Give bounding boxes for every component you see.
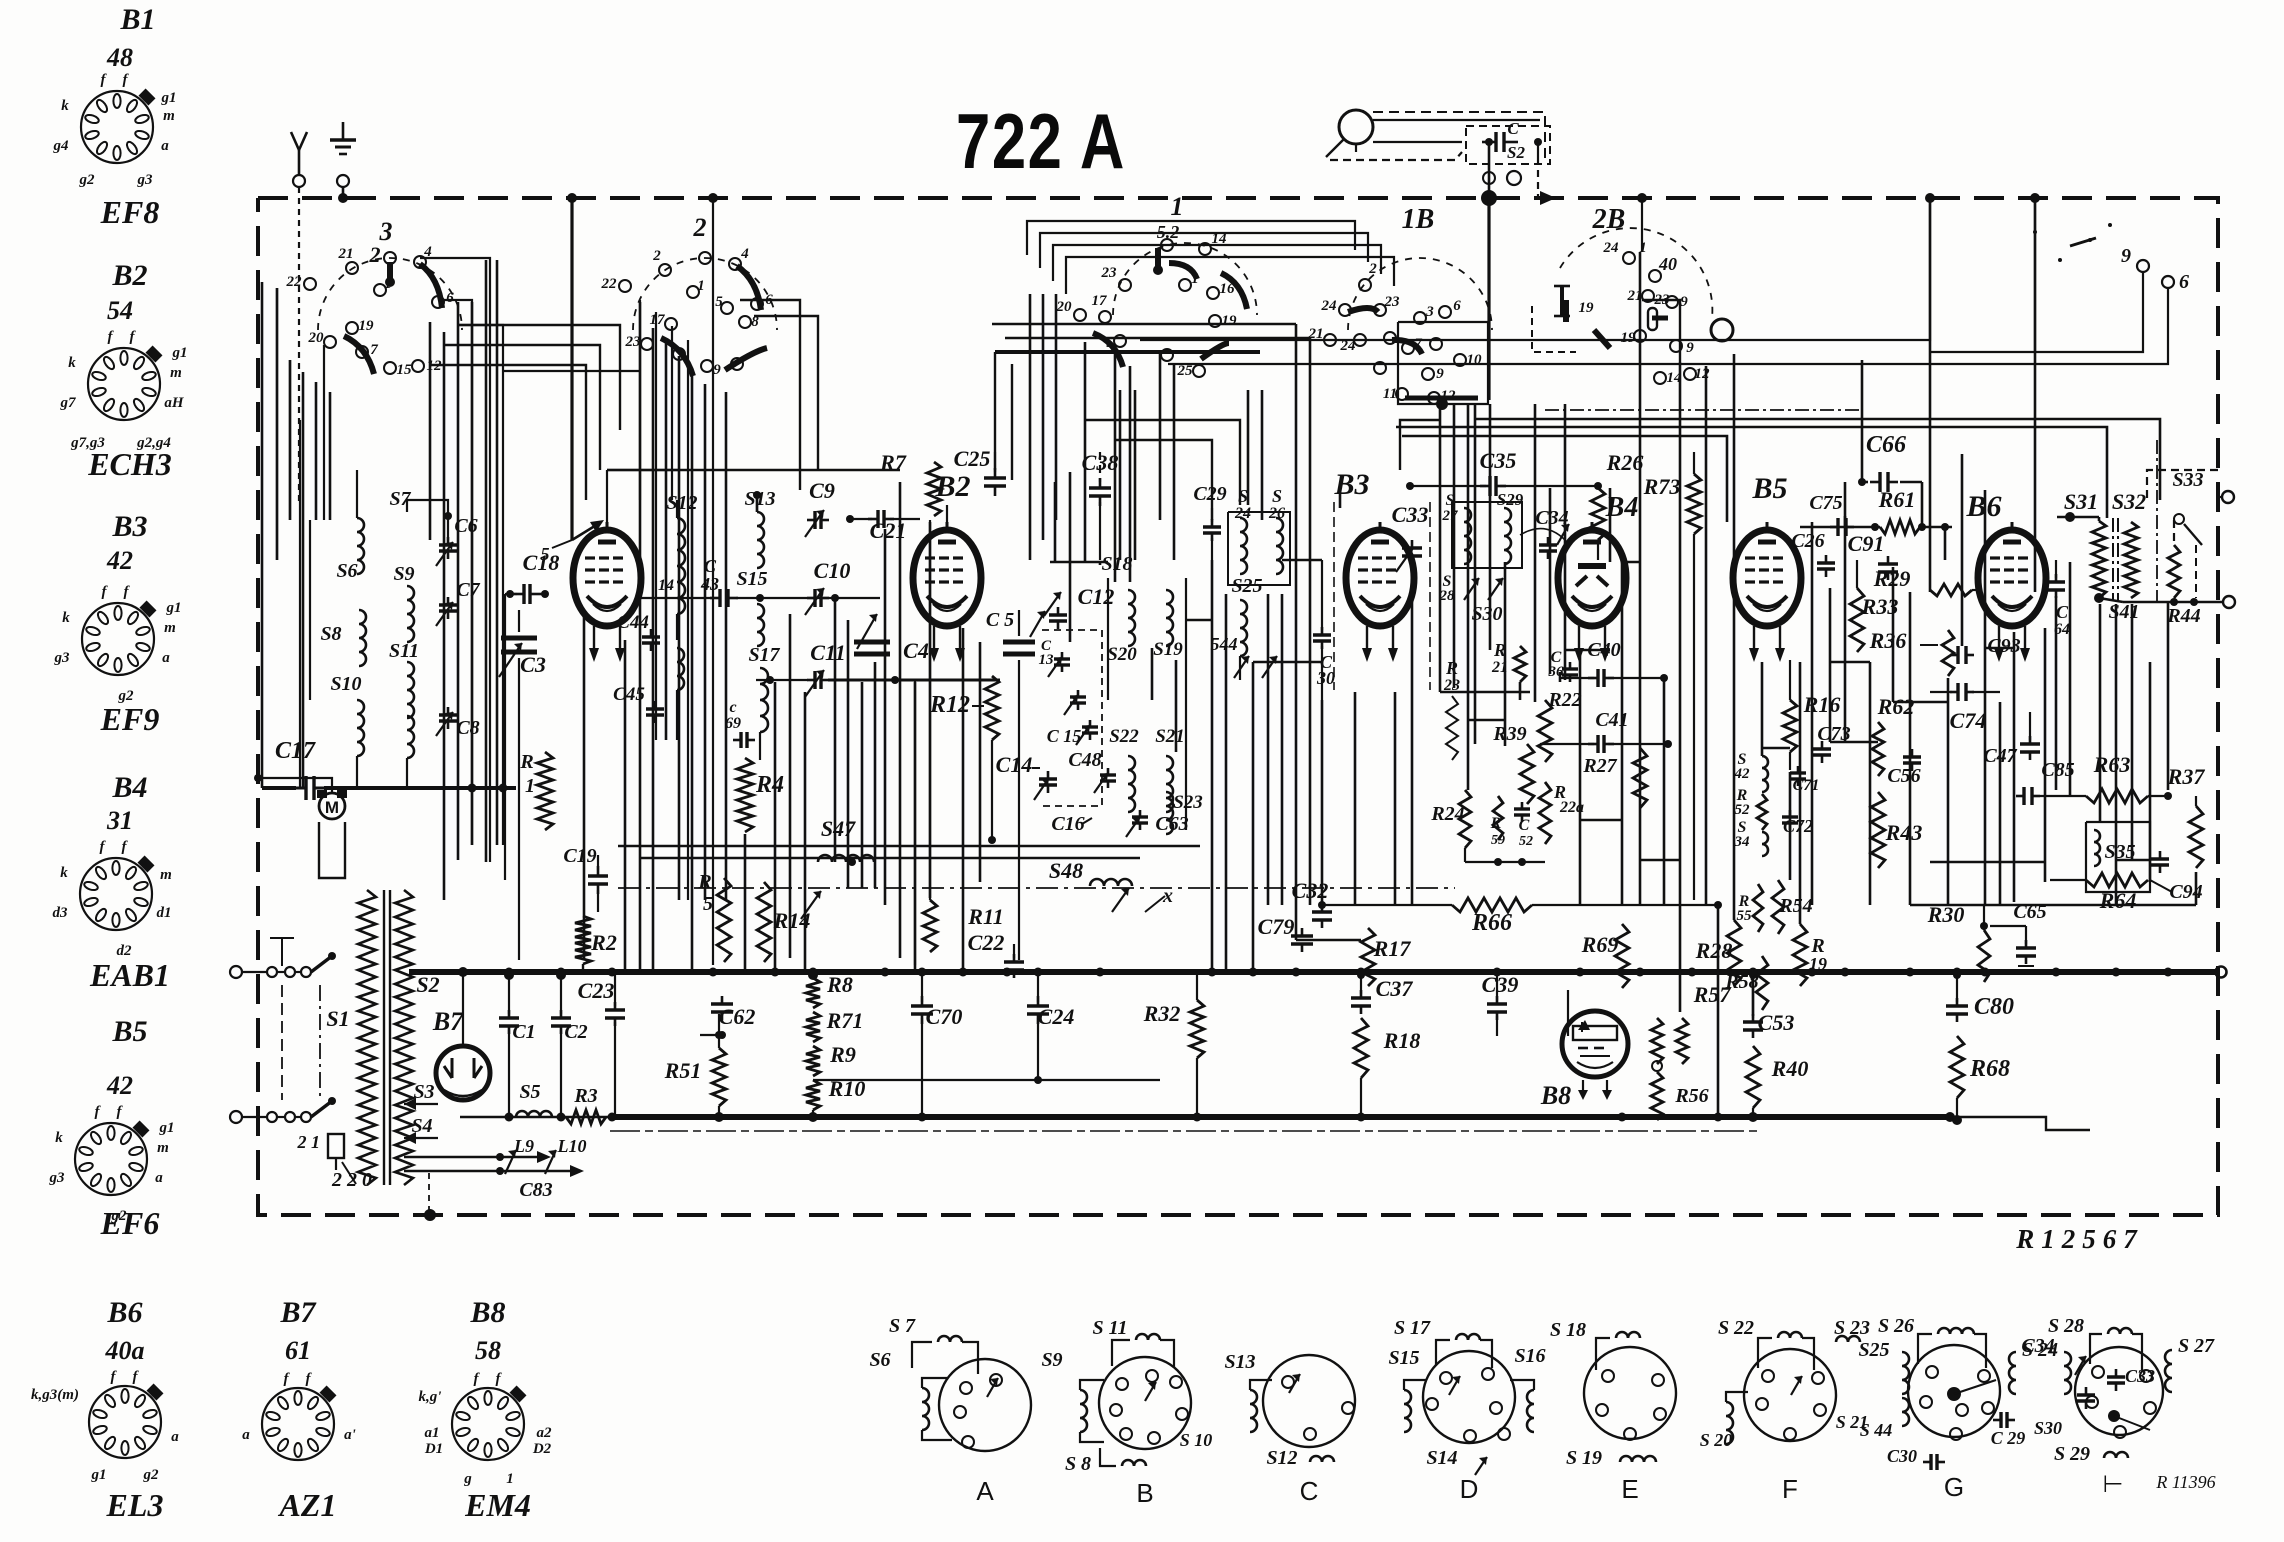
resistor R3: [566, 1085, 606, 1124]
svg-text:R61: R61: [1878, 487, 1916, 512]
varcap C11: [805, 640, 846, 697]
svg-text:S 18: S 18: [1550, 1319, 1586, 1341]
svg-text:g1: g1: [166, 600, 182, 616]
tube socket B2 (ECH3): [88, 346, 162, 420]
wire C62 join: [700, 1031, 723, 1039]
label S28 H: [2048, 1315, 2084, 1337]
node on top border: [338, 193, 348, 203]
resistor R18: [1354, 1018, 1420, 1121]
svg-text:2: 2: [369, 242, 381, 267]
svg-text:C29: C29: [1193, 483, 1226, 505]
motor M: [317, 790, 347, 819]
svg-text:AZ1: AZ1: [278, 1487, 337, 1523]
socket detail H circle: [2075, 1347, 2163, 1438]
transformer core: [384, 890, 390, 1185]
coil S17: [748, 644, 780, 760]
wire block drop a: [276, 288, 278, 560]
mech dash-dot line: [618, 887, 1455, 889]
svg-text:c: c: [729, 699, 736, 716]
band switch wafer 1B: [1308, 204, 1493, 404]
node on top border: [2030, 193, 2040, 203]
resistor R62: [1872, 694, 1914, 776]
svg-text:C16: C16: [1051, 813, 1084, 835]
svg-text:25: 25: [1177, 363, 1194, 379]
svg-text:R36: R36: [1869, 628, 1907, 653]
resistor R33: [1850, 560, 1898, 652]
svg-text:EF9: EF9: [100, 701, 160, 737]
fuse Z1: [297, 1132, 345, 1170]
label S16 D: [1514, 1345, 1545, 1367]
motor frame: [319, 822, 345, 878]
label S11 B: [1092, 1317, 1127, 1339]
coil S8: [320, 610, 366, 666]
tube socket B7 (AZ1): [262, 1386, 336, 1460]
coil S48: [1049, 858, 1132, 912]
svg-text:C22: C22: [968, 930, 1005, 955]
socket B2 pin labels: [60, 329, 188, 451]
band switch wafer 1: [1056, 192, 1258, 379]
svg-text:C62: C62: [719, 1004, 756, 1029]
svg-text:R8: R8: [826, 972, 853, 997]
socket F coil S22: [1758, 1332, 1814, 1370]
svg-text:C91: C91: [1848, 531, 1885, 556]
svg-text:C: C: [1519, 817, 1530, 834]
resistor R36: [1869, 628, 1954, 676]
svg-text:24: 24: [1321, 298, 1338, 314]
svg-text:S1: S1: [326, 1006, 349, 1031]
svg-text:C7: C7: [456, 579, 480, 601]
capacitor C62: [693, 996, 755, 1039]
svg-text:R40: R40: [1771, 1056, 1809, 1081]
wire top right bus c: [995, 350, 1260, 354]
resistor R57 pair: [1651, 982, 1731, 1064]
svg-text:722 A: 722 A: [956, 97, 1126, 185]
junction R8 top: [808, 970, 818, 980]
antenna lead wire: [298, 187, 300, 505]
svg-text:S31: S31: [2064, 489, 2098, 514]
earth symbol: [330, 122, 356, 187]
svg-text:R57: R57: [1693, 982, 1732, 1007]
socket detail C circle: [1263, 1355, 1355, 1447]
svg-text:R56: R56: [1674, 1085, 1708, 1107]
resistor R4: [737, 758, 784, 832]
svg-text:R62: R62: [1877, 694, 1915, 719]
wire coilblock top: [357, 470, 407, 540]
transformer top leads: [332, 860, 367, 884]
tube B5: [1733, 522, 1801, 662]
wire s-block mid: [310, 345, 324, 700]
svg-text:S6: S6: [336, 560, 357, 582]
resistor R2: [575, 916, 617, 971]
dash-dot S1 line: [319, 985, 321, 1100]
tube B8 (EM4): [1562, 1011, 1628, 1077]
tube B3: [1346, 522, 1414, 662]
svg-text:S11: S11: [389, 640, 419, 662]
svg-text:17: 17: [1092, 293, 1108, 309]
arrow on border: [1540, 191, 1556, 205]
resistor R10: [806, 1076, 865, 1122]
svg-text:23: 23: [625, 334, 642, 350]
wafer 1B bottom bar: [1405, 398, 1478, 410]
svg-text:S15: S15: [736, 568, 767, 590]
wire step runs: [430, 300, 1680, 520]
socket detail B circle: [1099, 1357, 1191, 1449]
tube socket B1 (EF8): [81, 89, 155, 163]
svg-text:S25: S25: [1858, 1339, 1889, 1361]
label C45: [613, 684, 664, 723]
label S2: [416, 972, 439, 997]
B3 shield dash: [1334, 502, 1430, 690]
resistor R51: [664, 1014, 726, 1122]
output transformer S31: [2057, 489, 2106, 603]
socket B coil S11: [1112, 1334, 1174, 1368]
label S3: [404, 1081, 438, 1110]
svg-text:S29: S29: [1497, 490, 1524, 509]
svg-text:S9: S9: [1041, 1349, 1062, 1371]
resistor R52: [1735, 787, 1768, 830]
tube socket B6 (EL3): [89, 1384, 163, 1458]
wire border drop x572: [570, 198, 573, 540]
svg-text:C10: C10: [814, 558, 851, 583]
L9 L10 arrows: [496, 1136, 587, 1175]
output transformer S32: [2112, 489, 2146, 600]
coil S12: [666, 492, 697, 640]
wire mid h3: [438, 300, 472, 845]
svg-text:d3: d3: [53, 905, 69, 921]
svg-text:C8: C8: [456, 717, 479, 739]
coil S19: [1153, 590, 1183, 660]
drawing number R12567: [2015, 1224, 2144, 1254]
socket G pointer: [1954, 1380, 1996, 1394]
label C15: [1047, 726, 1082, 746]
trimmer inner b: [1076, 720, 1098, 745]
svg-text:B4: B4: [111, 771, 147, 804]
dash box around C52: [1466, 126, 1550, 164]
varcap C34: [1520, 507, 1569, 559]
svg-text:a': a': [344, 1427, 356, 1443]
label S9 B: [1041, 1349, 1062, 1371]
label S10 B: [1180, 1430, 1213, 1450]
svg-text:19: 19: [1222, 313, 1238, 329]
svg-text:S 27: S 27: [2178, 1335, 2215, 1357]
label S6 A: [869, 1349, 890, 1371]
svg-text:S13: S13: [744, 488, 775, 510]
label S22 F: [1718, 1317, 1754, 1339]
resistor R56: [1651, 1061, 1709, 1120]
resistor R22a: [1539, 782, 1584, 844]
label B6: [1965, 490, 2001, 523]
trimmer C6: [436, 515, 478, 566]
capacitor C24: [1027, 975, 1074, 1080]
wire long h427: [1396, 427, 2107, 518]
svg-text:E: E: [1621, 1474, 1638, 1504]
socket detail A circle: [939, 1359, 1031, 1451]
socket B coil S9: [1080, 1380, 1104, 1442]
2B link symbol: [1554, 286, 1594, 316]
socket B1 pin labels: [53, 72, 177, 188]
tuning capacitor C4: [854, 614, 929, 663]
wire left column v1: [639, 300, 641, 500]
socket pin count 58: [475, 1336, 501, 1365]
svg-text:⊢: ⊢: [2103, 1471, 2124, 1498]
mains switch blade1: [311, 952, 336, 972]
band switch wafer 2: [601, 213, 778, 378]
capacitor C29pri: [1193, 483, 1226, 560]
svg-text:C14: C14: [996, 752, 1033, 777]
capacitor C75: [1809, 492, 1854, 536]
node on top border: [567, 193, 577, 203]
label 220: [331, 1169, 372, 1191]
svg-text:544: 544: [1211, 634, 1238, 654]
socket B4 pin labels: [53, 839, 172, 959]
label C: [1300, 1476, 1319, 1506]
svg-text:R3: R3: [573, 1085, 597, 1107]
trimmer C8: [436, 707, 480, 739]
resistor R5: [697, 871, 731, 962]
IF2 box: [1452, 502, 1522, 568]
socket label B6: [106, 1296, 142, 1329]
svg-text:9: 9: [1436, 366, 1444, 382]
varcap C12: [1044, 584, 1114, 629]
capacitor C73: [1813, 723, 1851, 763]
capacitor C52b: [1514, 802, 1533, 849]
svg-text:g1: g1: [91, 1467, 107, 1483]
tube type ECH3: [87, 446, 172, 482]
label S4: [404, 1115, 438, 1144]
wire mid h2: [457, 325, 503, 845]
svg-text:S22: S22: [1109, 726, 1139, 747]
label B2: [934, 470, 970, 503]
svg-text:B6: B6: [106, 1296, 142, 1329]
resistor R71: [806, 1008, 863, 1042]
label S23 F: [1834, 1317, 1870, 1342]
tube socket B4 (EAB1): [80, 856, 154, 930]
vertical thin pair: [299, 420, 301, 788]
capacitor C65: [1990, 901, 2047, 971]
resistor R1: [519, 751, 553, 830]
socket label B5: [111, 1015, 147, 1048]
svg-text:24: 24: [1603, 240, 1620, 256]
svg-text:R29: R29: [1873, 566, 1911, 591]
svg-text:ECH3: ECH3: [87, 446, 172, 482]
capacitor C17: [275, 738, 326, 800]
resistor R58: [1724, 956, 1768, 1010]
svg-text:S 19: S 19: [1566, 1447, 1602, 1469]
resistor R66: [1318, 898, 1722, 936]
coil S47: [801, 816, 874, 919]
svg-text:S23: S23: [1173, 792, 1203, 813]
svg-text:R39: R39: [1492, 723, 1526, 745]
transformer primary: [358, 890, 376, 1185]
svg-text:R12567: R12567: [2015, 1224, 2144, 1254]
coil S11: [389, 640, 419, 718]
svg-text:C 29: C 29: [1991, 1428, 2026, 1448]
svg-text:9: 9: [2121, 245, 2131, 267]
box S18: [1112, 582, 1182, 648]
svg-text:20: 20: [1056, 299, 1073, 315]
resistor R40: [1746, 1046, 1808, 1122]
svg-text:d1: d1: [157, 905, 172, 921]
svg-text:C53: C53: [1758, 1010, 1795, 1035]
svg-text:R71: R71: [826, 1008, 864, 1033]
wire motor down: [331, 886, 333, 930]
capacitor C35: [1406, 448, 1598, 496]
svg-text:S13: S13: [1224, 1351, 1255, 1373]
socket B arrow: [1145, 1382, 1156, 1401]
variable capacitor C3: [499, 610, 546, 960]
svg-text:31: 31: [106, 806, 133, 835]
capacitor C38: [1082, 450, 1119, 560]
wire x915 drop: [914, 680, 916, 965]
tube B4: [1558, 522, 1626, 662]
switch link dash: [281, 985, 283, 1100]
socket detail F circle: [1744, 1349, 1836, 1441]
svg-text:g1: g1: [161, 90, 177, 106]
svg-text:58: 58: [475, 1336, 501, 1365]
label S21 F: [1836, 1412, 1869, 1432]
label 14: [658, 577, 674, 594]
arrow to B1 grid: [572, 520, 604, 540]
svg-text:C3: C3: [520, 652, 546, 677]
svg-text:EL3: EL3: [106, 1487, 164, 1523]
svg-text:13: 13: [1039, 652, 1055, 668]
tube B1: [573, 522, 641, 662]
label C44: [617, 612, 660, 651]
svg-text:g: g: [463, 1471, 472, 1487]
varcap C33: [1392, 502, 1429, 600]
label S29 H: [2054, 1443, 2128, 1465]
svg-text:10: 10: [1467, 352, 1483, 368]
socket detail G circle: [1908, 1345, 2000, 1440]
wire left column v3: [671, 326, 673, 500]
svg-text:C94: C94: [2169, 881, 2202, 903]
capacitor C66: [1845, 360, 1922, 527]
svg-text:4: 4: [740, 246, 749, 262]
svg-text:43: 43: [700, 574, 719, 594]
resistor R39: [1492, 723, 1534, 804]
svg-text:R18: R18: [1383, 1028, 1421, 1053]
svg-text:S 26: S 26: [1878, 1315, 1914, 1337]
svg-text:42: 42: [1734, 766, 1751, 782]
resistor R9: [806, 1042, 856, 1076]
svg-text:34: 34: [1734, 834, 1751, 850]
svg-text:a: a: [162, 650, 170, 666]
svg-text:B6: B6: [1965, 490, 2001, 523]
svg-text:R51: R51: [664, 1058, 702, 1083]
tube type EAB1: [89, 957, 170, 993]
label B5: [1751, 472, 1787, 505]
svg-text:k: k: [61, 98, 69, 114]
capacitor C21: [846, 510, 920, 543]
node on top border big: [1481, 190, 1497, 206]
svg-text:R16: R16: [1803, 692, 1841, 717]
svg-text:C75: C75: [1809, 492, 1842, 514]
resistor R12: [929, 676, 999, 844]
svg-text:a: a: [242, 1427, 250, 1443]
socket A coil S7: [912, 1336, 978, 1374]
wire B2 arrows: [0, 0, 1, 1]
label B1 small: [541, 540, 573, 564]
wire border drop x1489: [1487, 198, 1490, 400]
terminal 6: [2162, 271, 2189, 293]
label F: [1782, 1474, 1798, 1504]
wire B2 top: [946, 505, 948, 522]
label S44: [1211, 634, 1278, 678]
svg-text:C17: C17: [275, 738, 316, 764]
node bottom border: [424, 1209, 436, 1221]
svg-text:C4: C4: [903, 638, 929, 663]
svg-text:B: B: [1136, 1478, 1153, 1508]
svg-text:R37: R37: [2167, 764, 2206, 789]
socket D coil S15: [1404, 1380, 1430, 1442]
socket label B2: [111, 259, 147, 292]
svg-text:S 10: S 10: [1180, 1430, 1213, 1450]
resistor R69: [1581, 905, 1629, 1117]
wire sec top: [404, 870, 434, 884]
socket label B4: [111, 771, 147, 804]
svg-text:52: 52: [1519, 834, 1533, 849]
svg-text:m: m: [163, 108, 175, 124]
resistor R27: [1582, 678, 1647, 808]
svg-text:g2: g2: [79, 172, 96, 188]
svg-text:g2: g2: [143, 1467, 160, 1483]
capacitor C93: [1950, 635, 2021, 664]
capacitor C79: [1258, 914, 1322, 952]
coil S20: [1107, 590, 1137, 665]
svg-text:k: k: [60, 865, 68, 881]
coil S10: [330, 673, 364, 788]
svg-text:S21: S21: [1155, 726, 1185, 747]
coil S6: [336, 506, 364, 582]
label x mark: [1145, 885, 1173, 912]
svg-text:C56: C56: [1887, 765, 1920, 787]
svg-text:S: S: [1272, 486, 1282, 506]
svg-text:26: 26: [1268, 505, 1285, 522]
wafer3 rotor bar: [385, 262, 395, 287]
capacitor C26: [1791, 530, 1835, 577]
heavy bus lower: [460, 1112, 1955, 1122]
coil S13: [744, 488, 775, 568]
wire C17 line: [262, 784, 516, 793]
coil S24: [1234, 486, 1251, 574]
tube type EF6: [100, 1205, 160, 1241]
svg-text:5: 5: [715, 294, 723, 310]
label S30 H: [2034, 1418, 2062, 1438]
capacitor C22: [968, 930, 1024, 978]
svg-text:S2: S2: [416, 972, 439, 997]
svg-text:R68: R68: [1969, 1056, 2010, 1082]
svg-text:C19: C19: [563, 845, 596, 867]
socket B7 pin labels: [242, 1371, 356, 1443]
svg-text:aH: aH: [164, 395, 185, 411]
socket A arrow: [987, 1378, 998, 1397]
svg-text:k,g3(m): k,g3(m): [31, 1387, 79, 1403]
svg-text:C37: C37: [1376, 976, 1414, 1001]
resistor R37: [2167, 764, 2206, 868]
svg-text:R73: R73: [1643, 474, 1681, 499]
resistor R29: [1873, 566, 1979, 596]
svg-text:2: 2: [1368, 261, 1377, 277]
svg-text:EM4: EM4: [464, 1487, 531, 1523]
transformer secondary: [395, 890, 413, 1185]
resistor R8: [806, 972, 853, 1008]
svg-text:S 44: S 44: [1860, 1420, 1893, 1440]
resistor R11: [918, 900, 1040, 952]
wire mesh horizontals: [607, 324, 2196, 940]
socket F coil S20: [1726, 1392, 1748, 1444]
dial cord dashed frame: [1330, 112, 1545, 163]
resistor R26: [1591, 450, 1643, 560]
